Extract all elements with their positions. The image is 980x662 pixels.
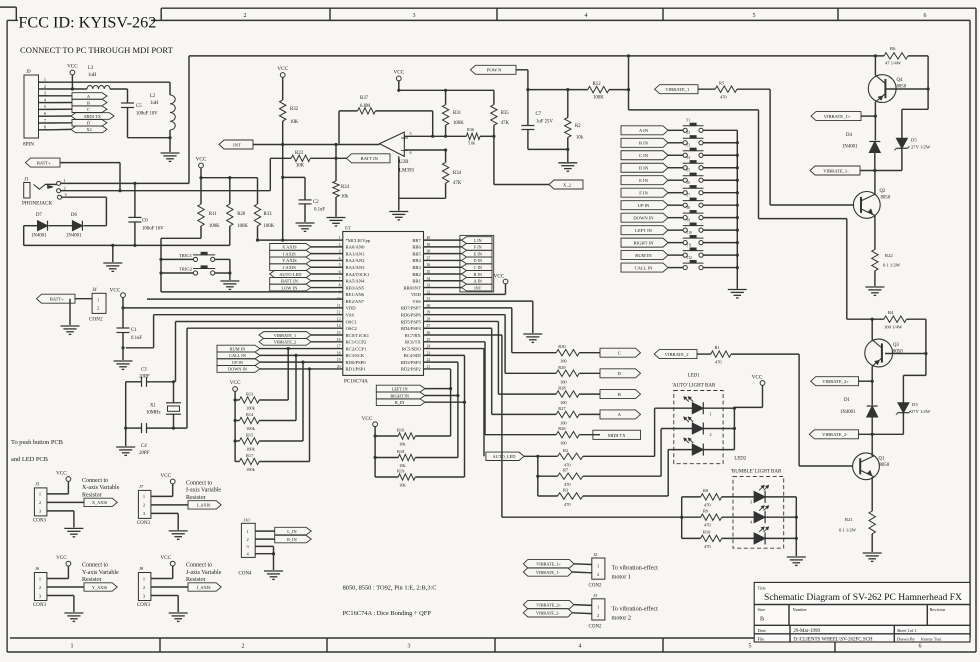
svg-text:T8: T8 xyxy=(686,206,690,210)
ground VSS right xyxy=(523,333,542,335)
svg-text:VCC: VCC xyxy=(494,274,505,280)
svg-text:1N4001: 1N4001 xyxy=(31,234,47,239)
wire LED1 right rail xyxy=(733,407,735,449)
svg-text:R24: R24 xyxy=(341,185,350,190)
wire R14 to input net xyxy=(259,420,296,422)
svg-text:2: 2 xyxy=(44,84,46,89)
LED D3 rumble xyxy=(722,496,754,498)
svg-text:1uF 25V: 1uF 25V xyxy=(536,120,553,125)
svg-text:J4: J4 xyxy=(92,288,97,293)
svg-text:8050, 8550 : TO92, Pin 1:E, 2: 8050, 8550 : TO92, Pin 1:E, 2:B,3:C xyxy=(343,585,437,592)
svg-text:1: 1 xyxy=(339,236,341,240)
svg-text:470: 470 xyxy=(564,462,571,467)
svg-text:C4: C4 xyxy=(141,444,147,449)
ground opamp xyxy=(398,156,400,210)
svg-text:D7: D7 xyxy=(36,213,42,218)
svg-text:T12: T12 xyxy=(686,256,692,260)
svg-text:0.1uF: 0.1uF xyxy=(314,208,325,213)
svg-text:C: C xyxy=(618,351,621,356)
svg-text:RD2/PSP2: RD2/PSP2 xyxy=(401,367,422,372)
connector J5 xyxy=(34,488,47,516)
resistor R12 xyxy=(588,86,609,92)
inductor L2 xyxy=(169,82,171,95)
wire battery minus rail xyxy=(23,226,25,246)
power VCC VDD left xyxy=(121,293,126,298)
svg-text:OSC2: OSC2 xyxy=(346,326,358,331)
svg-text:I_AXIS: I_AXIS xyxy=(197,503,211,508)
wire Q1 collector xyxy=(871,434,873,456)
svg-text:'RUMBLE' LIGHT BAR: 'RUMBLE' LIGHT BAR xyxy=(731,470,782,475)
svg-text:LEFT IN: LEFT IN xyxy=(392,386,408,391)
net arrow B xyxy=(72,99,107,106)
switch T6 xyxy=(668,192,683,194)
svg-text:PHONEJACK: PHONEJACK xyxy=(22,201,53,207)
svg-text:29-Mar-1999: 29-Mar-1999 xyxy=(793,629,820,634)
svg-text:L3: L3 xyxy=(88,66,94,71)
svg-text:VIBRATE_1+: VIBRATE_1+ xyxy=(824,114,851,119)
net arrow DOWN_IN (pin 20) xyxy=(217,366,260,373)
svg-text:CON4: CON4 xyxy=(239,572,253,577)
svg-text:Kenny Tsui: Kenny Tsui xyxy=(921,637,942,642)
svg-text:RB1: RB1 xyxy=(412,279,421,284)
resistor R31 xyxy=(445,90,447,104)
net arrow A xyxy=(72,93,107,100)
svg-text:DOWN IN: DOWN IN xyxy=(228,367,247,372)
svg-text:100 1/4W: 100 1/4W xyxy=(884,325,903,330)
svg-text:470: 470 xyxy=(704,544,711,549)
capacitor C3 xyxy=(126,381,142,383)
svg-text:R28: R28 xyxy=(558,386,566,391)
net arrow L_IN xyxy=(462,237,493,244)
svg-text:R16: R16 xyxy=(397,428,405,433)
wire INT rail to opamp xyxy=(253,144,380,146)
svg-text:A IN: A IN xyxy=(639,128,649,133)
svg-text:RE0/AN5: RE0/AN5 xyxy=(346,285,365,290)
connector J1 phonejack xyxy=(24,183,30,199)
svg-text:RC0/T1CK1: RC0/T1CK1 xyxy=(346,333,370,338)
svg-text:R27: R27 xyxy=(558,406,566,411)
capacitor C6 xyxy=(134,183,136,217)
power VCC J6 xyxy=(66,561,71,566)
svg-text:LM393: LM393 xyxy=(399,169,415,174)
svg-text:D:\CLIENTS WHEEL\SV-262FC.SCH: D:\CLIENTS WHEEL\SV-262FC.SCH xyxy=(793,638,873,643)
ground R21 xyxy=(863,552,882,554)
svg-text:10k: 10k xyxy=(399,483,406,488)
svg-text:X_2: X_2 xyxy=(563,182,572,187)
svg-text:RA3/AN3: RA3/AN3 xyxy=(346,265,366,270)
resistor R1 xyxy=(697,353,711,355)
wire C5 to gnd rail xyxy=(127,108,129,138)
svg-text:D5: D5 xyxy=(911,138,917,143)
svg-text:3: 3 xyxy=(44,91,46,96)
wire Q4 collector xyxy=(874,56,876,75)
svg-text:AUTO LED: AUTO LED xyxy=(279,272,302,277)
svg-text:5: 5 xyxy=(753,13,756,19)
svg-text:J9: J9 xyxy=(26,70,31,75)
wire LED3 right xyxy=(703,449,734,451)
svg-text:Y_AXIS: Y_AXIS xyxy=(92,585,108,590)
net arrow Y_AXIS (pin 4) xyxy=(270,257,311,264)
wire RIGHT IN to pin xyxy=(424,361,458,363)
resistor R4 xyxy=(847,318,884,320)
wire R23 to BATT_IN xyxy=(310,157,346,159)
ground R24 xyxy=(335,197,337,217)
ground switch common xyxy=(728,289,747,291)
svg-text:R5: R5 xyxy=(719,81,725,86)
wire J9 pin 2 xyxy=(39,88,50,90)
svg-text:VCC: VCC xyxy=(362,416,373,422)
resistor R32 xyxy=(280,100,286,121)
svg-text:CON3: CON3 xyxy=(33,518,47,523)
svg-text:RB6: RB6 xyxy=(412,245,421,250)
wire L3 to C5 xyxy=(110,88,128,90)
net arrow X_AXIS xyxy=(47,501,84,503)
svg-text:1N4001: 1N4001 xyxy=(840,410,856,415)
svg-text:2: 2 xyxy=(242,644,245,650)
svg-text:T2: T2 xyxy=(686,131,690,135)
net arrow C_IN xyxy=(621,151,668,160)
wire R30 feed xyxy=(424,307,512,309)
svg-text:RB2: RB2 xyxy=(412,272,421,277)
wire J9 pin1 to L2 xyxy=(49,81,170,83)
resistor R6 xyxy=(874,54,877,57)
svg-text:2: 2 xyxy=(597,572,599,577)
power VCC J7 xyxy=(170,479,175,484)
wire J9 pin 7 xyxy=(39,122,50,124)
svg-text:J6: J6 xyxy=(35,566,40,571)
wire R3 to LED xyxy=(583,495,668,497)
svg-text:0.1 1/2W: 0.1 1/2W xyxy=(839,528,857,533)
svg-text:Q2: Q2 xyxy=(880,189,886,194)
net arrow D xyxy=(600,369,641,378)
wire AUTO_LED node xyxy=(524,455,558,457)
svg-text:R_IN: R_IN xyxy=(287,537,297,542)
svg-text:D6: D6 xyxy=(71,213,77,218)
capacitor C1 xyxy=(117,327,130,329)
svg-text:5.0k: 5.0k xyxy=(468,141,476,146)
svg-text:R2: R2 xyxy=(563,448,568,453)
svg-text:RD4/PSP4: RD4/PSP4 xyxy=(401,326,422,331)
net arrow VIBRATE_2- xyxy=(809,430,858,439)
svg-text:U1: U1 xyxy=(345,227,351,232)
svg-text:DOWN IN: DOWN IN xyxy=(633,215,654,220)
net arrow B_IN xyxy=(621,138,668,147)
net arrow F_IN xyxy=(462,243,493,250)
svg-text:2: 2 xyxy=(143,585,145,590)
wire POW sense run xyxy=(628,56,630,110)
svg-text:R32: R32 xyxy=(290,107,299,112)
svg-text:R34: R34 xyxy=(453,171,462,176)
connector J6 xyxy=(34,573,47,601)
svg-text:Resistor: Resistor xyxy=(82,493,102,499)
net arrow BATT+ J4 xyxy=(37,294,76,303)
wire R26 feed xyxy=(424,341,486,343)
wire R33 to MCLR xyxy=(257,226,259,240)
wire LED2 right xyxy=(703,428,734,430)
svg-text:L_IN: L_IN xyxy=(287,529,296,534)
net arrow DOWN_IN xyxy=(621,213,668,222)
svg-text:3: 3 xyxy=(750,499,752,504)
capacitor C2 xyxy=(283,176,305,178)
svg-text:RB5: RB5 xyxy=(412,251,421,256)
svg-text:RC5/SDO: RC5/SDO xyxy=(402,346,422,351)
svg-text:X AXIS: X AXIS xyxy=(282,245,297,250)
svg-text:VIBRATE_2: VIBRATE_2 xyxy=(665,352,690,357)
svg-text:1: 1 xyxy=(44,77,46,82)
svg-text:2: 2 xyxy=(143,503,145,508)
svg-text:Resistor: Resistor xyxy=(186,577,206,583)
net arrow LEFT_IN xyxy=(621,226,668,235)
resistor R8 xyxy=(682,496,701,498)
svg-text:RB4: RB4 xyxy=(412,258,421,263)
wire J9 pin 3 xyxy=(39,95,50,97)
net arrow R_IN J10 xyxy=(255,538,275,540)
svg-text:R3: R3 xyxy=(563,488,569,493)
wire R32 to INT rail xyxy=(282,121,284,145)
resistor R9 xyxy=(682,516,701,518)
net arrow B_IN xyxy=(462,271,493,278)
svg-text:Connect to: Connect to xyxy=(82,478,108,484)
svg-text:R2: R2 xyxy=(575,124,581,129)
svg-text:20PF: 20PF xyxy=(139,451,150,456)
svg-text:LOW IN: LOW IN xyxy=(281,285,298,290)
svg-text:F IN: F IN xyxy=(639,191,648,196)
net arrow A_IN xyxy=(462,277,493,284)
wire BATT+ feed xyxy=(60,162,120,164)
svg-text:VIBRATE_1-: VIBRATE_1- xyxy=(536,570,560,575)
svg-text:47K: 47K xyxy=(501,121,510,126)
switch T9 xyxy=(668,229,683,231)
wire Q3 emitter xyxy=(871,366,873,381)
svg-text:30K: 30K xyxy=(296,164,305,169)
wire R15 to input net xyxy=(259,440,303,442)
svg-text:470: 470 xyxy=(720,95,727,100)
power VCC J8 xyxy=(170,561,175,566)
svg-text:E IN: E IN xyxy=(639,178,648,183)
capacitor C4 xyxy=(126,427,142,429)
svg-text:RC4/SDI: RC4/SDI xyxy=(404,353,422,358)
wire LED2 right rail xyxy=(795,497,797,556)
svg-text:*MCLR/Vpp: *MCLR/Vpp xyxy=(346,238,371,243)
svg-text:Q4: Q4 xyxy=(897,78,903,83)
transistor Q1 xyxy=(853,453,880,480)
net arrow BATT_IN xyxy=(347,154,391,163)
wire top supply rail xyxy=(188,56,190,183)
net arrow POW_N xyxy=(470,65,516,74)
net arrow E_IN xyxy=(462,250,493,257)
svg-text:VCC: VCC xyxy=(67,64,78,70)
resistor R35 xyxy=(493,90,495,104)
power VCC R13 bank xyxy=(233,387,238,392)
power VCC R11 rail xyxy=(199,163,204,168)
wire opamp +in xyxy=(404,135,445,137)
svg-text:2: 2 xyxy=(39,500,41,505)
switch TRIG2 xyxy=(161,272,193,274)
svg-text:VCC: VCC xyxy=(110,288,121,294)
svg-text:B IN: B IN xyxy=(639,141,649,146)
resistor R23 xyxy=(269,158,271,190)
svg-text:100K: 100K xyxy=(453,121,464,126)
svg-text:100: 100 xyxy=(560,441,567,446)
power VCC VDD right xyxy=(424,293,506,295)
svg-text:T6: T6 xyxy=(686,181,690,185)
wire MCLR net xyxy=(258,239,343,241)
resistor R2 xyxy=(558,453,583,459)
svg-text:100K: 100K xyxy=(593,96,604,101)
wire RC7 to rumble resistors xyxy=(424,334,502,336)
net arrow VIBRATE_2- J3 xyxy=(523,609,572,617)
net arrow L_IN J10 xyxy=(255,530,275,532)
svg-text:VCC: VCC xyxy=(277,66,288,72)
svg-text:TRIG1: TRIG1 xyxy=(179,253,193,258)
svg-text:R6: R6 xyxy=(890,46,896,51)
svg-text:RUM IN: RUM IN xyxy=(230,346,245,351)
wire R28 feed xyxy=(424,320,499,322)
resistor R11 xyxy=(200,178,202,204)
wire R27 feed xyxy=(424,327,492,329)
svg-text:VIBRATE_2-: VIBRATE_2- xyxy=(536,611,560,616)
svg-text:27V 1/2W: 27V 1/2W xyxy=(911,145,931,150)
svg-text:R11: R11 xyxy=(209,212,217,217)
svg-text:J-axis Variable: J-axis Variable xyxy=(186,570,222,576)
diode D6 xyxy=(49,225,73,227)
wire J9 pin2 xyxy=(49,88,87,90)
net arrow UP_IN (pin 19) xyxy=(217,359,260,366)
svg-text:AUTO_LED: AUTO_LED xyxy=(493,454,516,459)
svg-text:1N4001: 1N4001 xyxy=(842,145,858,150)
wire POW_N xyxy=(516,69,528,71)
svg-text:RD7/PSP7: RD7/PSP7 xyxy=(401,306,422,311)
svg-text:T9: T9 xyxy=(686,219,690,223)
svg-text:Schematic Diagram of SV-262 PC: Schematic Diagram of SV-262 PC Hamnerhea… xyxy=(764,592,962,603)
resistor R37 feedback xyxy=(338,111,340,144)
svg-text:1uH: 1uH xyxy=(150,101,159,106)
resistor R27 xyxy=(556,411,579,417)
svg-text:RA5/AN4: RA5/AN4 xyxy=(346,279,366,284)
ground J8 xyxy=(151,595,178,597)
svg-text:A IN: A IN xyxy=(474,279,482,284)
wire R1 to Q1 base xyxy=(731,353,799,355)
svg-text:Resistor: Resistor xyxy=(82,577,102,583)
svg-text:R20: R20 xyxy=(237,212,246,217)
svg-text:R18: R18 xyxy=(397,449,405,454)
wire VDD pin11 xyxy=(123,307,343,309)
resistor R5 xyxy=(698,88,715,90)
ground C1 xyxy=(114,360,133,362)
svg-text:C6: C6 xyxy=(142,219,148,224)
wire VIBRATE_2- node xyxy=(859,433,904,435)
svg-text:FCC ID: KYISV-262: FCC ID: KYISV-262 xyxy=(18,14,156,32)
wire diode chain to pin3 xyxy=(83,225,106,227)
svg-text:Q3: Q3 xyxy=(893,343,899,348)
svg-text:2: 2 xyxy=(64,186,66,191)
svg-text:R14: R14 xyxy=(246,412,254,417)
svg-text:VCC: VCC xyxy=(160,473,171,479)
svg-text:470: 470 xyxy=(704,502,711,507)
svg-text:1: 1 xyxy=(143,576,145,581)
svg-text:2: 2 xyxy=(710,432,712,437)
wire phonejack pin3 xyxy=(62,196,107,198)
svg-text:Y AXIS: Y AXIS xyxy=(282,258,297,263)
svg-text:R8: R8 xyxy=(703,488,709,493)
wire VIBRATE_1- node xyxy=(860,170,902,172)
ground J4 xyxy=(61,325,80,327)
wire pin9 to TRIG rail xyxy=(161,291,343,293)
svg-text:'AUTO' LIGHT BAR: 'AUTO' LIGHT BAR xyxy=(672,384,716,389)
net label MIDI TX xyxy=(593,430,641,439)
wire opamp out node xyxy=(335,145,337,182)
svg-text:RB3: RB3 xyxy=(412,265,421,270)
net arrow VIBRATE_1+ xyxy=(811,112,861,121)
svg-text:RC6/TX: RC6/TX xyxy=(405,340,422,345)
LED D1 auto xyxy=(692,403,703,414)
svg-text:C7: C7 xyxy=(536,112,542,117)
svg-text:To vibration-effect: To vibration-effect xyxy=(612,565,659,572)
wire switch common xyxy=(736,130,738,289)
ground under L2 xyxy=(169,138,171,152)
svg-text:File: File xyxy=(758,636,765,641)
wire R12 rail xyxy=(528,89,588,91)
svg-text:Date: Date xyxy=(758,628,766,633)
switch T8 xyxy=(668,217,683,219)
svg-text:BATT+: BATT+ xyxy=(50,297,64,302)
svg-text:INT: INT xyxy=(233,142,241,147)
wire J9 pin 4 xyxy=(39,102,50,104)
wire J9 pin 8 xyxy=(39,129,50,131)
svg-text:R23: R23 xyxy=(295,151,304,156)
svg-text:2: 2 xyxy=(597,613,599,618)
svg-text:CON2: CON2 xyxy=(89,317,103,323)
svg-text:RA4/T0CK1: RA4/T0CK1 xyxy=(346,272,370,277)
svg-text:8050: 8050 xyxy=(893,350,903,355)
resistor R26 xyxy=(556,432,579,438)
svg-text:T1: T1 xyxy=(686,119,690,123)
svg-text:Title: Title xyxy=(758,586,766,591)
ground R22 xyxy=(865,286,884,288)
svg-text:R12: R12 xyxy=(593,82,602,87)
wire MCLR vertical xyxy=(282,145,284,241)
svg-text:1: 1 xyxy=(597,604,599,609)
svg-text:0.1uF: 0.1uF xyxy=(131,336,142,341)
svg-text:100K: 100K xyxy=(209,224,220,229)
svg-text:T4: T4 xyxy=(686,156,690,160)
ground LED2 xyxy=(787,556,806,558)
ground TRIG xyxy=(220,280,239,282)
svg-text:47 1/4W: 47 1/4W xyxy=(885,61,902,66)
svg-text:BATT IN: BATT IN xyxy=(281,279,299,284)
svg-text:J_AXIS: J_AXIS xyxy=(197,585,211,590)
svg-text:47K: 47K xyxy=(453,181,462,186)
svg-text:VIBRATE_1: VIBRATE_1 xyxy=(274,333,296,338)
svg-text:U2B: U2B xyxy=(399,160,409,165)
switch T11 xyxy=(668,254,683,256)
svg-text:R_IN: R_IN xyxy=(395,400,405,405)
svg-text:RD5/PSP5: RD5/PSP5 xyxy=(401,319,422,324)
svg-text:VIBRATE_1-: VIBRATE_1- xyxy=(823,168,849,173)
svg-text:R36: R36 xyxy=(467,127,474,132)
svg-text:CON2: CON2 xyxy=(589,584,603,589)
svg-text:4: 4 xyxy=(579,644,582,650)
diode D4 xyxy=(874,116,876,140)
wire R20 bottom xyxy=(229,226,231,245)
power VCC opamp xyxy=(396,76,401,81)
switch T10 xyxy=(668,242,683,244)
svg-text:R26: R26 xyxy=(558,426,566,431)
power VCC J5 xyxy=(66,477,71,482)
svg-text:R19: R19 xyxy=(397,469,405,474)
svg-text:VCC: VCC xyxy=(230,380,241,386)
wire R_IN to pin xyxy=(424,354,465,356)
